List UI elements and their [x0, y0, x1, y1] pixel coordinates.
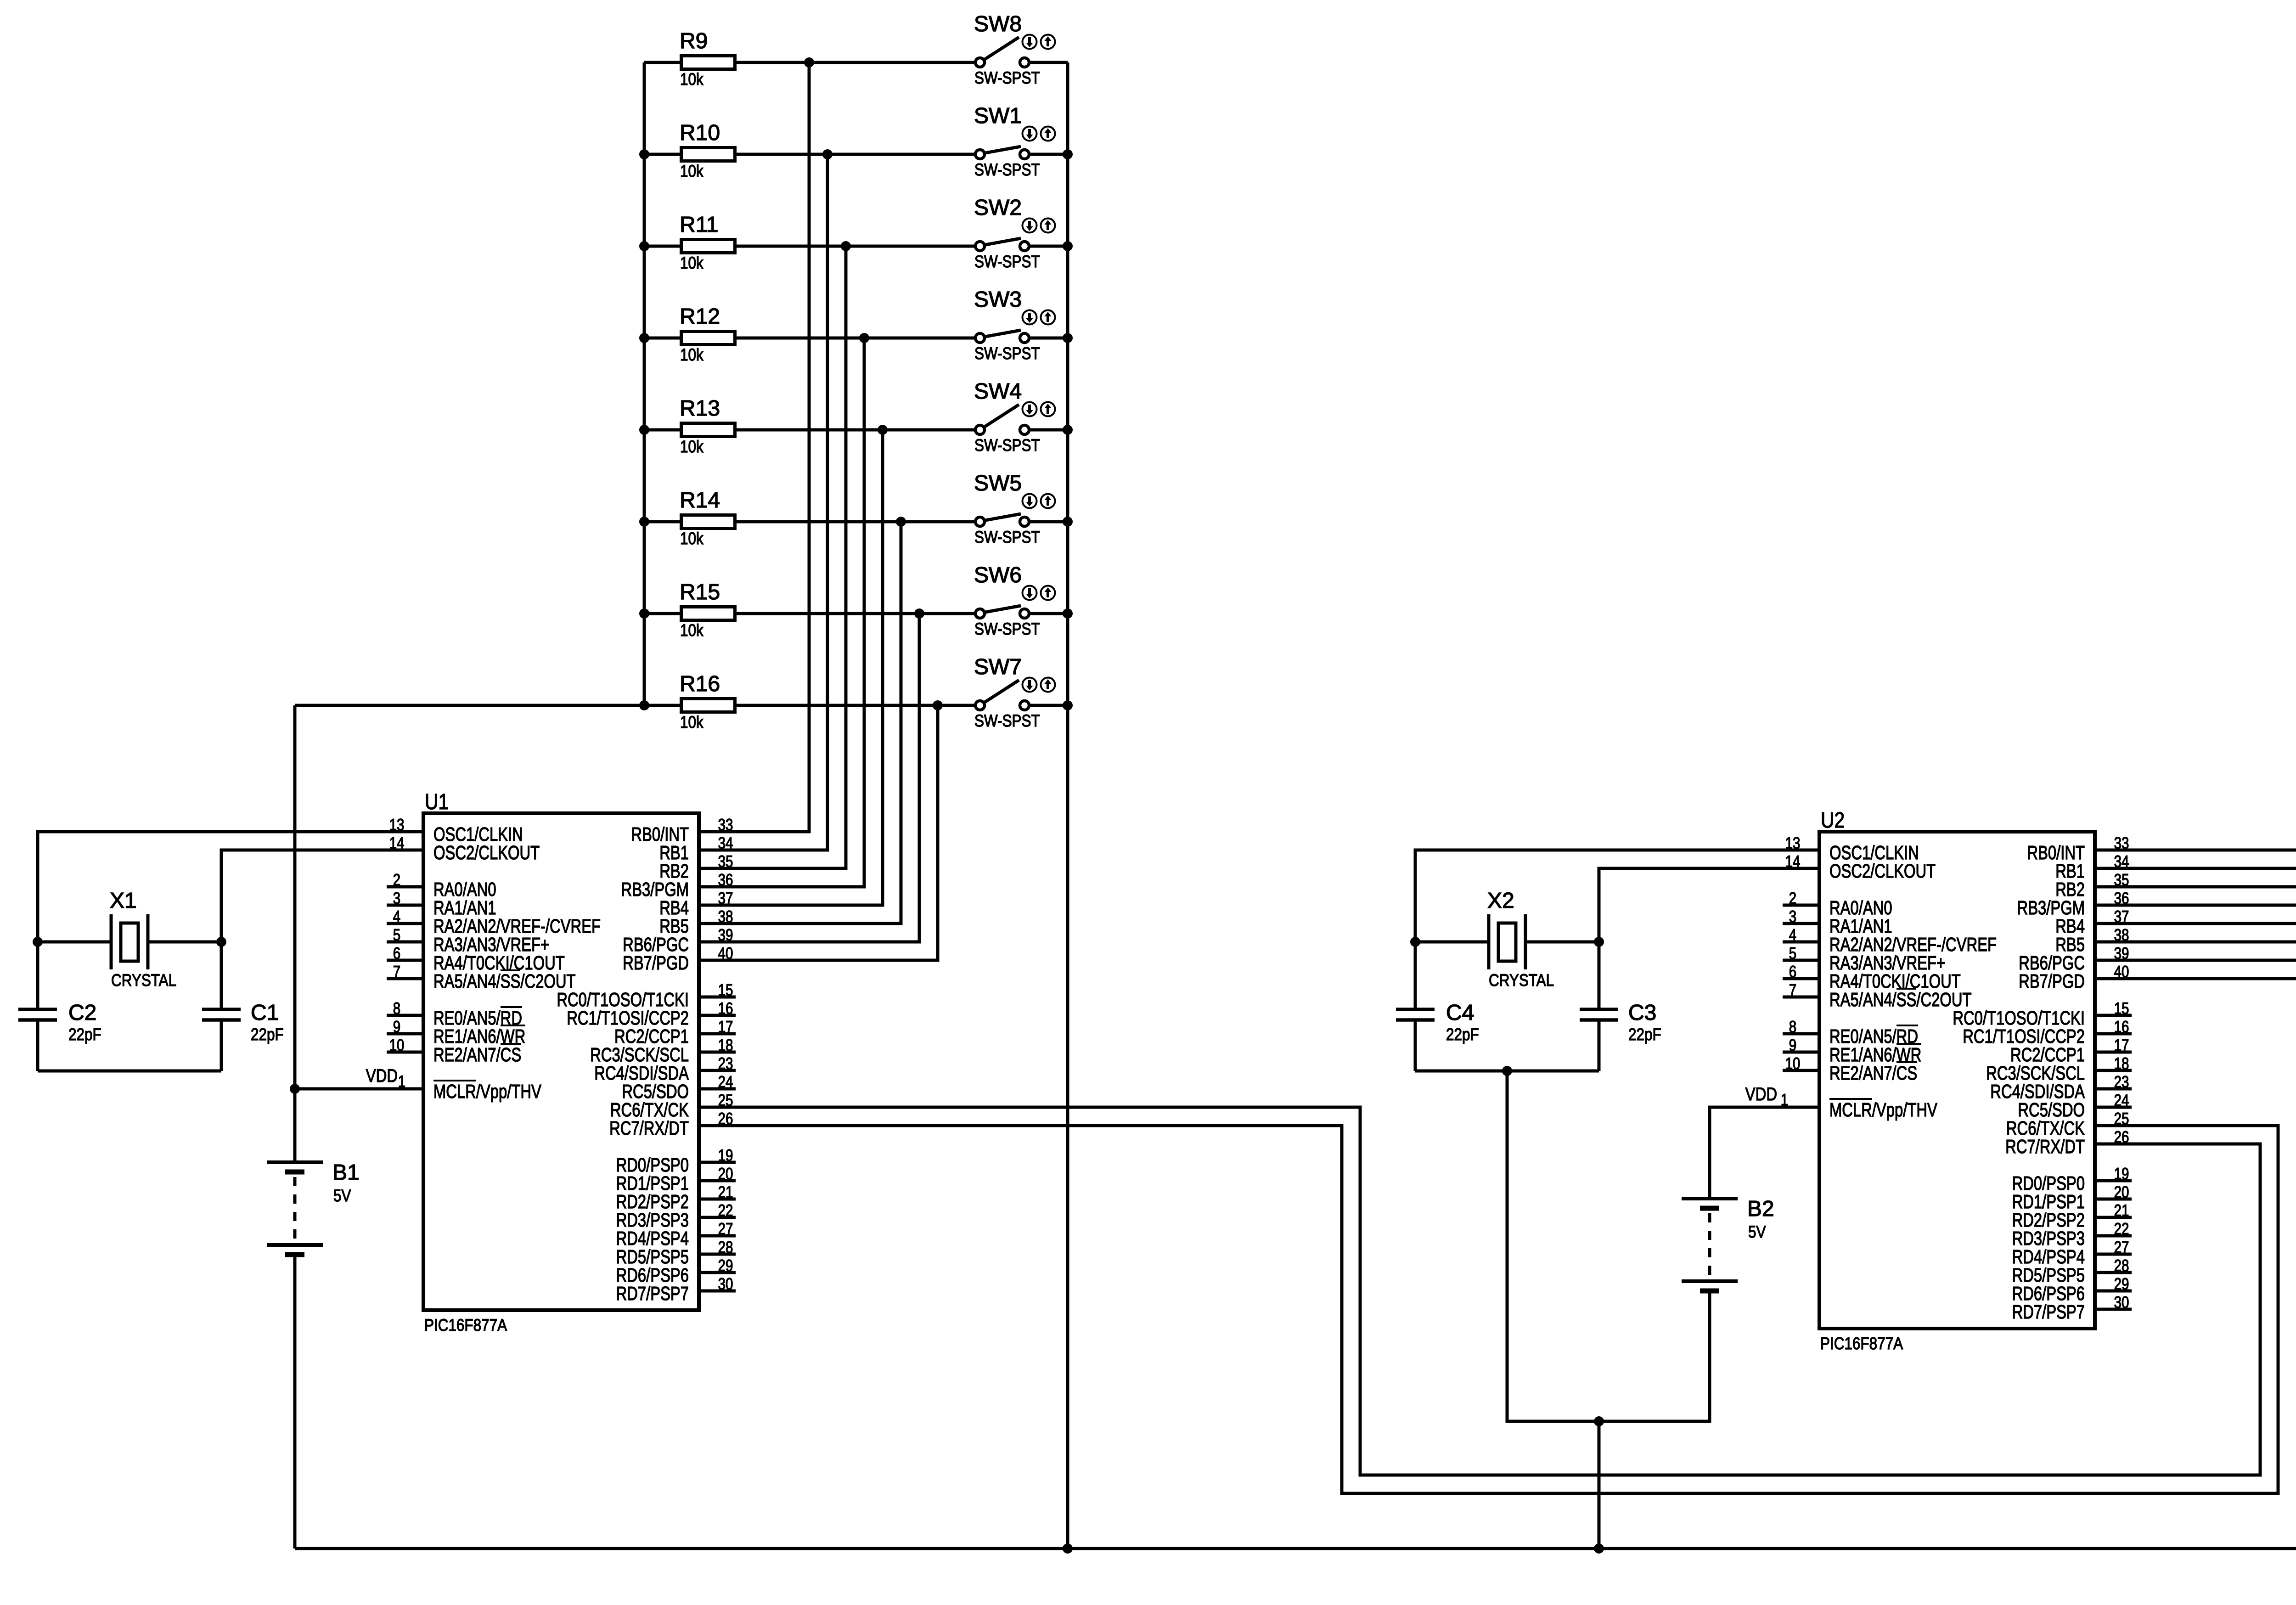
svg-text:2: 2: [1789, 889, 1796, 907]
junction VDD at U1 MCLR wire: [290, 1084, 300, 1094]
wire U2 pin 36 to R5: [2095, 868, 2296, 905]
wire U2 pin 38 to R3: [2095, 942, 2296, 1089]
svg-text:U1: U1: [425, 790, 449, 814]
wire SW3 to right bus: [1029, 337, 1068, 340]
svg-text:1: 1: [398, 1072, 405, 1091]
wire SW8 to right bus: [1029, 61, 1068, 64]
label VDD U1: [366, 1066, 405, 1091]
junction right switch bus at SW6: [1063, 608, 1073, 619]
svg-text:R9: R9: [680, 29, 708, 53]
svg-text:SW-SPST: SW-SPST: [974, 252, 1040, 271]
svg-text:SW1: SW1: [974, 104, 1022, 128]
svg-text:C2: C2: [68, 1001, 96, 1025]
svg-text:OSC2/CLKOUT: OSC2/CLKOUT: [1829, 860, 1936, 882]
junction crystal X1 right node: [216, 937, 226, 947]
svg-text:R16: R16: [680, 672, 720, 696]
svg-text:19: 19: [2114, 1164, 2129, 1183]
svg-text:22: 22: [2114, 1219, 2129, 1238]
wire row R10 to SW1: [644, 153, 975, 156]
resistor R14: [680, 488, 735, 548]
wire row R11 to SW2: [644, 245, 975, 248]
junction right switch bus at SW4: [1063, 425, 1073, 435]
svg-text:15: 15: [718, 980, 733, 999]
svg-text:6: 6: [393, 944, 400, 963]
svg-text:10k: 10k: [680, 345, 703, 364]
svg-text:VDD: VDD: [1745, 1084, 1777, 1104]
svg-text:SW3: SW3: [974, 287, 1022, 312]
svg-text:RE2/AN7/CS: RE2/AN7/CS: [433, 1044, 521, 1065]
svg-text:B1: B1: [332, 1160, 360, 1185]
svg-text:10k: 10k: [680, 621, 703, 640]
svg-text:10k: 10k: [680, 437, 703, 456]
switch SW1 (SW-SPST): [974, 104, 1055, 179]
svg-text:30: 30: [718, 1274, 733, 1293]
wire U1 pin 34 to column R10 node: [699, 154, 827, 850]
svg-text:24: 24: [2114, 1091, 2129, 1109]
junction R14 node to column: [896, 517, 906, 527]
svg-text:RE2/AN7/CS: RE2/AN7/CS: [1829, 1062, 1917, 1084]
svg-text:21: 21: [2114, 1201, 2129, 1220]
svg-text:SW-SPST: SW-SPST: [974, 619, 1040, 638]
wire SW1 to right bus: [1029, 153, 1068, 156]
resistor R12: [680, 304, 735, 364]
svg-text:10: 10: [389, 1036, 405, 1054]
svg-text:7: 7: [1789, 980, 1796, 999]
wire U2 MCLR (VDD) to battery B2: [1710, 1107, 1819, 1199]
switch SW8 (SW-SPST): [974, 12, 1055, 87]
wire SW4 to right bus: [1029, 428, 1068, 432]
wire U1 pin 33 to column R9 node: [699, 62, 809, 832]
junction R10 node to column: [822, 149, 833, 159]
junction crystal X1 left node: [33, 937, 43, 947]
junction ladder bus at R15: [639, 608, 649, 619]
svg-text:5: 5: [393, 925, 400, 944]
wire R16 row to VDD vertical: [295, 704, 644, 707]
wire VDD vertical (left): [293, 705, 297, 1162]
resistor R10: [680, 121, 735, 180]
wire U2 pin 39 to R2: [2095, 960, 2296, 1199]
wire B1 minus to ground rail: [293, 1255, 297, 1549]
svg-text:SW-SPST: SW-SPST: [974, 528, 1040, 546]
junction right switch bus at SW7: [1063, 700, 1073, 710]
svg-text:10: 10: [1785, 1054, 1801, 1073]
label VDD U2: [1745, 1084, 1788, 1109]
svg-text:RA5/AN4/SS/C2OUT: RA5/AN4/SS/C2OUT: [1829, 989, 1972, 1010]
svg-text:C3: C3: [1628, 1001, 1656, 1025]
svg-text:29: 29: [718, 1256, 733, 1275]
capacitor C1 22pF: [202, 1001, 284, 1071]
junction R16 node to column: [933, 700, 943, 710]
svg-text:R15: R15: [680, 580, 720, 604]
svg-text:SW-SPST: SW-SPST: [974, 711, 1040, 730]
svg-text:5V: 5V: [1748, 1222, 1766, 1241]
junction capacitor-bottom tap: [1502, 1066, 1512, 1076]
svg-text:17: 17: [2114, 1036, 2129, 1054]
svg-text:C4: C4: [1446, 1001, 1474, 1025]
wire B2 minus to capacitor net: [1507, 1071, 1710, 1421]
svg-text:27: 27: [718, 1219, 733, 1238]
wire U2 pin 37 to R4: [2095, 924, 2296, 979]
junction R13 node to column: [878, 425, 888, 435]
wire B2 net down to ground rail: [1598, 1421, 1601, 1549]
wire U1 pin 36 to column R12 node: [699, 338, 864, 887]
crystal X2: [1487, 889, 1554, 990]
wire U2 pin 34 to R7: [2095, 648, 2296, 868]
switch SW4 (SW-SPST): [974, 379, 1055, 455]
svg-text:10k: 10k: [680, 253, 703, 272]
svg-text:CRYSTAL: CRYSTAL: [111, 971, 176, 990]
svg-text:29: 29: [2114, 1274, 2129, 1293]
junction crystal X2 right node: [1594, 937, 1604, 947]
wire bottom ground rail: [295, 1547, 2296, 1550]
wire SW7 to right bus: [1029, 704, 1068, 707]
svg-text:RC7/RX/DT: RC7/RX/DT: [2005, 1136, 2085, 1157]
junction right switch bus at SW5: [1063, 517, 1073, 527]
svg-text:SW-SPST: SW-SPST: [974, 436, 1040, 455]
svg-text:20: 20: [718, 1164, 733, 1183]
svg-text:5V: 5V: [333, 1186, 351, 1205]
svg-text:6: 6: [1789, 962, 1796, 981]
svg-text:24: 24: [718, 1072, 733, 1091]
svg-text:SW-SPST: SW-SPST: [974, 160, 1040, 179]
svg-text:MCLR/Vpp/THV: MCLR/Vpp/THV: [433, 1081, 541, 1102]
wire row R12 to SW3: [644, 337, 975, 340]
svg-text:17: 17: [718, 1017, 733, 1036]
svg-text:1: 1: [1781, 1090, 1788, 1109]
wire OSC1 to crystal net: [38, 832, 423, 1009]
svg-text:R14: R14: [680, 488, 720, 512]
wire row R9 to SW8: [644, 61, 975, 64]
svg-text:RA5/AN4/SS/C2OUT: RA5/AN4/SS/C2OUT: [433, 970, 576, 992]
wire row R14 to SW5: [644, 520, 975, 524]
svg-text:SW8: SW8: [974, 12, 1022, 36]
switch SW6 (SW-SPST): [974, 563, 1055, 638]
IC U1 PIC16F877A: [387, 790, 736, 1335]
junction R12 node to column: [859, 333, 869, 343]
wire switch right bus down to ground rail: [1066, 62, 1069, 1549]
wire OSC2 to crystal net: [1525, 868, 1819, 1009]
svg-text:RD7/PSP7: RD7/PSP7: [2012, 1301, 2085, 1323]
junction ladder bus at R10: [639, 149, 649, 159]
junction crystal X2 left node: [1410, 937, 1420, 947]
capacitor C3 22pF: [1580, 1001, 1661, 1071]
svg-text:RD7/PSP7: RD7/PSP7: [616, 1283, 689, 1304]
svg-text:28: 28: [2114, 1256, 2129, 1275]
junction ladder bus at R14: [639, 517, 649, 527]
svg-text:22pF: 22pF: [68, 1025, 101, 1044]
wire U1 RC7/RX to U2 RC6/TX: [699, 1126, 2278, 1493]
svg-text:23: 23: [2114, 1072, 2129, 1091]
switch SW2 (SW-SPST): [974, 196, 1055, 271]
svg-text:5: 5: [1789, 944, 1796, 963]
resistor R15: [680, 580, 735, 640]
svg-text:22pF: 22pF: [1628, 1025, 1661, 1044]
svg-text:X2: X2: [1487, 889, 1514, 913]
svg-text:8: 8: [1789, 1017, 1796, 1036]
svg-text:28: 28: [718, 1238, 733, 1256]
resistor R16: [680, 672, 735, 732]
svg-text:SW6: SW6: [974, 563, 1022, 587]
svg-text:SW5: SW5: [974, 471, 1022, 496]
svg-text:9: 9: [1789, 1036, 1796, 1054]
junction right switch bus at SW2: [1063, 241, 1073, 251]
junction ground rail at x3482: [1594, 1543, 1604, 1554]
svg-text:PIC16F877A: PIC16F877A: [1820, 1334, 1903, 1353]
wire SW6 to right bus: [1029, 612, 1068, 615]
IC U2 PIC16F877A: [1783, 808, 2132, 1353]
wire OSC2 to crystal net: [148, 850, 423, 1009]
svg-text:16: 16: [718, 999, 733, 1018]
junction B2 net to ground rail: [1594, 1416, 1604, 1426]
capacitor C4 22pF: [1396, 1001, 1479, 1071]
wire row R15 to SW6: [644, 612, 975, 615]
svg-text:C1: C1: [251, 1001, 279, 1025]
wire capacitor bottoms: [38, 1070, 221, 1073]
junction right switch bus at SW3: [1063, 333, 1073, 343]
junction R11 node to column: [841, 241, 851, 251]
switch SW5 (SW-SPST): [974, 471, 1055, 546]
svg-text:SW2: SW2: [974, 196, 1022, 220]
wire U1 MCLR (VDD) to vertical: [295, 1087, 423, 1091]
svg-text:3: 3: [393, 889, 400, 907]
svg-text:PIC16F877A: PIC16F877A: [424, 1316, 507, 1335]
wire U1 pin 35 to column R11 node: [699, 246, 846, 868]
svg-text:RC7/RX/DT: RC7/RX/DT: [609, 1117, 689, 1139]
svg-text:18: 18: [2114, 1054, 2129, 1073]
capacitor C2 22pF: [18, 1001, 101, 1071]
svg-text:RB7/PGD: RB7/PGD: [2019, 970, 2085, 992]
svg-text:MCLR/Vpp/THV: MCLR/Vpp/THV: [1829, 1099, 1937, 1121]
svg-text:10k: 10k: [680, 162, 703, 180]
svg-text:10k: 10k: [680, 70, 703, 89]
wire row R13 to SW4: [644, 428, 975, 432]
svg-text:15: 15: [2114, 999, 2129, 1018]
svg-text:7: 7: [393, 962, 400, 981]
svg-text:SW7: SW7: [974, 655, 1022, 679]
junction R15 node to column: [914, 608, 924, 619]
svg-text:9: 9: [393, 1017, 400, 1036]
svg-text:3: 3: [1789, 907, 1796, 926]
svg-text:2: 2: [393, 870, 400, 889]
junction ladder bus at R12: [639, 333, 649, 343]
svg-text:SW-SPST: SW-SPST: [974, 68, 1040, 87]
svg-text:30: 30: [2114, 1293, 2129, 1312]
wire U1 pin 40 to column R16 node: [699, 705, 938, 960]
wire SW2 to right bus: [1029, 245, 1068, 248]
svg-text:16: 16: [2114, 1017, 2129, 1036]
junction right switch bus at SW1: [1063, 149, 1073, 159]
svg-text:R12: R12: [680, 304, 720, 329]
wire U2 pin 33 to R8: [2095, 538, 2296, 850]
svg-text:VDD: VDD: [366, 1066, 398, 1086]
wire U1 pin 39 to column R15 node: [699, 614, 919, 942]
svg-text:18: 18: [718, 1036, 733, 1054]
switch SW3 (SW-SPST): [974, 287, 1055, 363]
svg-text:X1: X1: [110, 889, 137, 913]
svg-text:22pF: 22pF: [251, 1025, 284, 1044]
junction ladder bus at R13: [639, 425, 649, 435]
svg-text:4: 4: [393, 907, 400, 926]
svg-text:SW-SPST: SW-SPST: [974, 344, 1040, 363]
svg-text:RB7/PGD: RB7/PGD: [623, 952, 689, 974]
svg-text:U2: U2: [1821, 808, 1845, 833]
wire ladder left bus (R9-R16 left pins): [643, 62, 646, 705]
svg-text:CRYSTAL: CRYSTAL: [1489, 971, 1554, 990]
svg-text:19: 19: [718, 1146, 733, 1165]
junction ladder bus at R11: [639, 241, 649, 251]
svg-text:23: 23: [718, 1054, 733, 1073]
svg-text:SW4: SW4: [974, 379, 1022, 404]
svg-text:OSC2/CLKOUT: OSC2/CLKOUT: [433, 842, 540, 863]
resistor R13: [680, 396, 735, 456]
wire capacitor bottoms: [1415, 1070, 1599, 1073]
wire U2 pin 35 to R6: [2095, 758, 2296, 887]
svg-text:20: 20: [2114, 1183, 2129, 1201]
resistor R11: [680, 213, 735, 272]
wire SW5 to right bus: [1029, 520, 1068, 524]
svg-text:4: 4: [1789, 925, 1796, 944]
crystal X1: [110, 889, 176, 990]
svg-text:27: 27: [2114, 1238, 2129, 1256]
wire row R16 to SW7: [644, 704, 975, 707]
svg-text:R11: R11: [680, 213, 719, 237]
junction ladder bus at R16: [639, 700, 649, 710]
wire U1 RC6/TX to U2 RC7/RX: [699, 1107, 2260, 1475]
resistor R9: [680, 29, 735, 89]
wire OSC1 to crystal net: [1415, 850, 1819, 1009]
wire U1 pin 38 to column R14 node: [699, 522, 901, 924]
svg-text:R10: R10: [680, 121, 720, 145]
battery B1 5V: [267, 1160, 360, 1255]
svg-text:22: 22: [718, 1201, 733, 1220]
svg-text:B2: B2: [1747, 1197, 1774, 1221]
svg-text:22pF: 22pF: [1446, 1025, 1479, 1044]
svg-text:R13: R13: [680, 396, 720, 421]
svg-text:8: 8: [393, 999, 400, 1018]
switch SW7 (SW-SPST): [974, 655, 1055, 730]
svg-text:21: 21: [718, 1183, 733, 1201]
wire U1 pin 37 to column R13 node: [699, 430, 883, 905]
svg-text:10k: 10k: [680, 713, 703, 732]
battery B2 5V: [1682, 1197, 1774, 1291]
junction R9 node to column: [804, 57, 814, 68]
wire U2 pin 40 to R1: [2095, 979, 2296, 1309]
junction switch bus at bottom rail: [1063, 1543, 1073, 1554]
svg-text:10k: 10k: [680, 529, 703, 548]
